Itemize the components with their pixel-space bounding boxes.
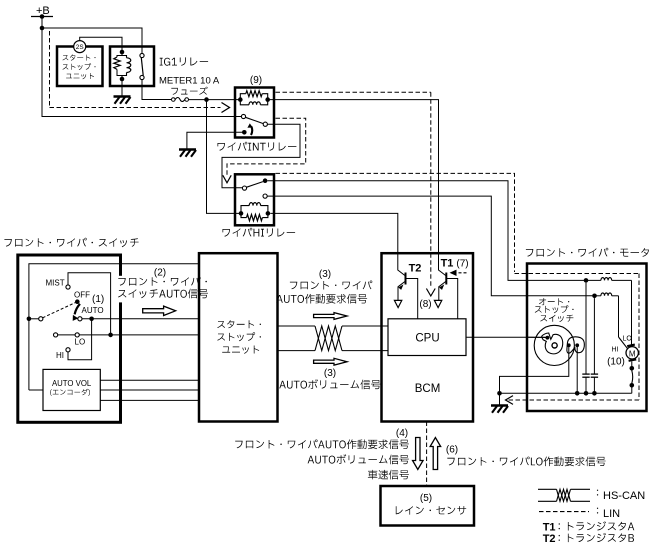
wire +B vertical feed: [41, 17, 43, 118]
HS-CAN wire lower: [278, 350, 316, 352]
inductor IG1 coil: [122, 56, 127, 58]
ground INT relay: [179, 148, 196, 151]
label rain sensor: [396, 506, 466, 514]
block arrow (4) down: [413, 438, 424, 470]
svg-text:T1: T1: [543, 522, 556, 534]
svg-text:AUTO VOL: AUTO VOL: [52, 379, 92, 388]
wire INT coil to BCM T1: [270, 100, 439, 266]
junction AUTO output: [89, 317, 94, 322]
svg-text:(6): (6): [446, 445, 458, 456]
svg-text:AUTO: AUTO: [82, 306, 104, 315]
label front wiper AUTO request (4): [235, 439, 409, 449]
box BCM: [382, 253, 474, 421]
wire HI coil to BCM T2: [270, 213, 398, 266]
svg-text:HI: HI: [612, 347, 619, 354]
box rain sensor: [381, 486, 475, 526]
box CPU: [388, 319, 466, 356]
HS-CAN wire upper: [278, 325, 316, 327]
wire AUTO VOL out 1: [100, 379, 199, 381]
junction common rail: [27, 317, 32, 322]
svg-text:MIST: MIST: [46, 279, 65, 288]
wire follower B to ground rail: [576, 345, 578, 393]
svg-text:(4): (4): [396, 428, 408, 439]
cam hub: [552, 343, 557, 348]
T2 base to CPU: [406, 279, 418, 319]
label front wiper AUTO request signal: [290, 281, 372, 290]
svg-text:2S: 2S: [76, 44, 84, 51]
junction ground rail C1: [584, 391, 589, 396]
legend LIN dashed: [539, 511, 589, 513]
capacitor C1: [585, 283, 587, 374]
svg-text:(5): (5): [420, 493, 432, 504]
relay wiper-INT box: [235, 88, 274, 138]
LIN dashed inside motor bottom: [507, 399, 639, 401]
cam plate: [542, 333, 563, 354]
HI contact diagonal: [619, 337, 628, 349]
box front wiper motor: [527, 264, 647, 412]
svg-text:T2: T2: [409, 263, 422, 275]
motor ground rail: [500, 392, 632, 394]
inductor motor HI noise coil: [601, 293, 612, 296]
wire MIST to LO output: [68, 273, 111, 335]
HI switch NO node: [263, 178, 268, 183]
LIN dashed INT to HI relay: [227, 118, 306, 176]
node OFF: [75, 299, 80, 304]
wire HI NO to motor LO feed: [268, 181, 585, 281]
wire 2S to IG1 coil: [80, 37, 122, 50]
label IG1 relay: [160, 57, 208, 65]
contact LO left: [54, 333, 58, 337]
svg-text:HI: HI: [56, 351, 64, 360]
follower contact node B: [575, 343, 579, 347]
resistor INT coil: [240, 94, 246, 100]
svg-text:(9): (9): [250, 75, 262, 86]
switch wiper arm (dashed): [43, 303, 76, 318]
ground T1 emitter (triangle): [434, 300, 441, 307]
HI coil right node: [266, 211, 271, 216]
junction motor ground: [497, 391, 502, 396]
wire switch common rail: [29, 264, 199, 390]
inductor HI coil: [241, 206, 249, 214]
wire motor to park switch: [631, 362, 633, 369]
IG1 coil top node: [120, 50, 125, 55]
ground IG1 relay: [114, 95, 131, 98]
wire park switch to ground rail: [631, 385, 633, 393]
label front wiper switch: [4, 238, 138, 247]
motor M: [626, 347, 638, 359]
LIN dashed inside motor right: [638, 274, 640, 401]
legend label LIN: [597, 508, 598, 514]
svg-text:M: M: [629, 349, 636, 358]
label fuse: [171, 87, 208, 95]
LIN dashed line to wiper INT relay: [50, 107, 221, 109]
wire LO coil to motor: [584, 279, 601, 281]
park switch contact arc: [631, 371, 634, 384]
label auto-stop switch: [539, 298, 569, 305]
contact AUTO: [78, 317, 82, 321]
INT relay actuation arrow: [251, 126, 252, 135]
relay IG1 box: [110, 47, 154, 87]
wire +B to IG1 relay contact: [42, 28, 142, 54]
cam contact node: [546, 336, 550, 340]
label (2): [116, 276, 176, 303]
wire INT NO to HI relay common: [222, 124, 300, 188]
junction motor LO feed: [584, 278, 589, 283]
rotation arrow (1): [75, 304, 80, 315]
wire AUTO VOL out 3: [100, 399, 199, 401]
wire fuse junction down to HI relay coil: [207, 100, 242, 214]
LIN dashed line from start-stop unit: [49, 31, 51, 108]
HI switch common contact: [242, 186, 246, 190]
label vehicle speed signal: [368, 470, 409, 480]
IG1 switch fixed contact: [140, 53, 144, 57]
wire CPU into cam contact: [527, 336, 546, 338]
LIN arrow inside motor: [506, 396, 514, 405]
svg-text:LIN: LIN: [603, 508, 620, 520]
park switch node upper: [630, 366, 635, 371]
svg-text:HS-CAN: HS-CAN: [603, 490, 645, 502]
INT switch common contact: [241, 114, 245, 118]
junction fuse output: [204, 97, 209, 102]
wire IG1 coil to ground: [121, 79, 123, 96]
label start-stop unit (top): [63, 54, 96, 60]
wire rail to pivot: [29, 318, 39, 320]
block arrow (2): [143, 306, 176, 315]
HS-CAN twisted section: [315, 326, 342, 351]
INT switch NC node: [242, 130, 247, 135]
ground T2 emitter (triangle): [394, 300, 401, 307]
resistor HI coil: [241, 213, 247, 217]
wire ground-feed to wiper INT relay NC contact: [42, 116, 241, 118]
connector 2S circle: [74, 41, 86, 53]
HI switch NC contact: [263, 194, 267, 198]
pivot contact: [39, 317, 43, 321]
junction +B: [40, 26, 45, 31]
label front wiper LO request signal: [447, 457, 605, 467]
label start-stop unit: [217, 320, 261, 328]
wire IG1 contact to fuse: [142, 80, 171, 100]
resistor IG1 coil (vertical zigzag): [117, 52, 122, 57]
svg-text:(3): (3): [324, 368, 336, 379]
svg-text:T2: T2: [543, 533, 556, 545]
wire CPU to auto-stop switch: [466, 336, 546, 338]
svg-text:(8): (8): [419, 299, 431, 310]
LIN dashed BCM vertical (8): [430, 92, 432, 287]
junction ground rail follower B: [575, 391, 580, 396]
label AUTO volume signal: [279, 379, 380, 389]
LIN dashed BCM to rain sensor: [426, 422, 428, 487]
LIN dashed arrow (7) into T1: [452, 272, 467, 274]
svg-text:(3): (3): [319, 269, 331, 280]
follower shoe: [567, 337, 584, 353]
svg-text:(10): (10): [607, 357, 625, 368]
wire AUTO VOL out 2: [100, 389, 199, 391]
label AUTO volume signal (4): [308, 454, 409, 464]
label front wiper motor: [526, 248, 649, 257]
box start-stop unit: [199, 253, 278, 421]
svg-text:LO: LO: [75, 338, 86, 347]
INT coil right node: [265, 97, 270, 102]
box front wiper switch: [18, 255, 121, 422]
wire rail to AUTO VOL: [29, 389, 43, 391]
ground front wiper motor: [491, 404, 508, 407]
transistor T1: [439, 266, 446, 276]
svg-text:(1): (1): [92, 294, 104, 305]
relay wiper-HI box: [235, 174, 274, 225]
block arrow (3) upper: [314, 313, 347, 320]
fuse METER1: [172, 98, 176, 102]
HI switch arm: [246, 182, 263, 188]
wire INT NC to ground: [187, 132, 244, 148]
HI coil left node: [239, 211, 244, 216]
label wiper HI relay: [223, 228, 296, 237]
IG1 switch arm: [141, 58, 143, 76]
contact MIST: [66, 285, 70, 289]
LIN arrow into INT relay: [222, 103, 230, 113]
wire HI coil toward motor: [592, 295, 601, 297]
wire HI NC to motor HI feed: [268, 196, 593, 296]
inductor motor LO noise coil: [601, 278, 612, 281]
junction LO output: [108, 333, 113, 338]
T1 base to CPU: [446, 279, 457, 319]
block arrow (3) lower: [314, 358, 347, 365]
contact LO right: [75, 333, 79, 337]
transistor T2: [398, 266, 405, 276]
IG1 coil bottom node: [120, 77, 125, 82]
label front wiper switch AUTO signal: [118, 277, 207, 286]
svg-text:(7): (7): [456, 259, 468, 270]
svg-text:T1: T1: [441, 258, 454, 270]
LIN dashed inside motor top: [515, 273, 640, 275]
wire fuse to INT relay coil: [189, 99, 241, 101]
svg-text:OFF: OFF: [74, 291, 90, 300]
wire LO contacts: [58, 334, 76, 336]
LIN arrow (8): [426, 289, 435, 297]
IG1 switch lower contact: [140, 75, 144, 79]
svg-text:LO: LO: [623, 336, 633, 343]
INT coil left node: [238, 97, 243, 102]
label wiper INT relay: [218, 142, 297, 151]
follower contact node A: [567, 343, 571, 347]
legend HS-CAN symbol: [538, 488, 557, 490]
LIN dashed INT relay to BCM: [276, 91, 431, 93]
wire AUTO output: [82, 318, 199, 320]
svg-text:CPU: CPU: [415, 333, 439, 345]
legend label HS-CAN: [597, 490, 598, 496]
block arrow (6) up: [430, 438, 441, 470]
park switch node lower: [630, 383, 635, 388]
junction ground rail C2: [592, 391, 597, 396]
svg-text:BCM: BCM: [415, 383, 441, 395]
auto-stop switch disc: [534, 325, 574, 365]
box AUTO VOL encoder: [43, 369, 100, 410]
wire LO output: [79, 334, 199, 336]
INT switch arm: [245, 117, 263, 123]
INT switch NO contact: [263, 122, 267, 126]
junction motor HI feed: [592, 294, 597, 299]
inductor INT coil: [240, 99, 249, 104]
svg-text:(2): (2): [154, 268, 166, 279]
wire HI to AUTO output: [68, 319, 92, 360]
svg-text:METER1 10 A: METER1 10 A: [159, 76, 220, 87]
capacitor C2: [593, 298, 595, 374]
wire follower A to ground: [500, 345, 569, 393]
label encoder: [50, 389, 90, 396]
LIN dashed HI relay to motor: [276, 173, 515, 272]
wire to motor ground: [499, 393, 501, 404]
contact HI: [66, 348, 70, 352]
LIN arrow into HI relay: [223, 175, 231, 183]
box start-stop unit (top): [57, 47, 103, 87]
